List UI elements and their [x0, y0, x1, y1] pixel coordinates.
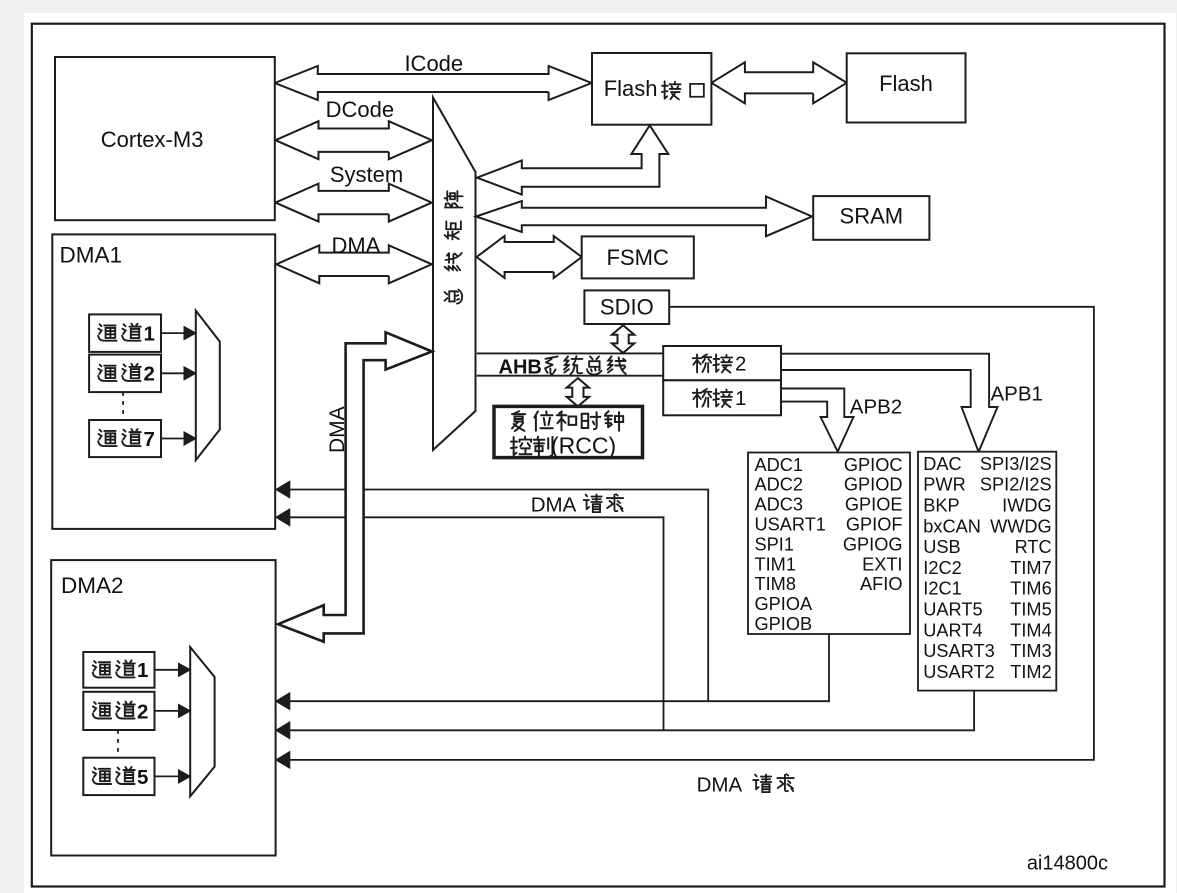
- svg-text:2: 2: [144, 363, 155, 386]
- svg-text:SDIO: SDIO: [600, 295, 654, 320]
- svg-text:Flash: Flash: [604, 76, 658, 101]
- svg-text:2: 2: [735, 353, 746, 376]
- svg-text:1: 1: [144, 323, 155, 346]
- svg-text:System: System: [330, 162, 403, 187]
- svg-text:GPIOB: GPIOB: [755, 614, 813, 634]
- svg-text:SRAM: SRAM: [840, 204, 904, 229]
- svg-text:EXTI: EXTI: [862, 554, 902, 574]
- svg-text:SPI1: SPI1: [755, 534, 794, 554]
- svg-text:APB2: APB2: [850, 396, 902, 419]
- svg-text:GPIOA: GPIOA: [755, 594, 813, 614]
- svg-text:TIM1: TIM1: [755, 554, 796, 574]
- svg-text:WWDG: WWDG: [990, 516, 1052, 536]
- svg-text:GPIOC: GPIOC: [844, 455, 903, 475]
- svg-text:TIM2: TIM2: [1010, 662, 1051, 682]
- svg-text:ADC1: ADC1: [755, 455, 804, 475]
- svg-text:2: 2: [137, 700, 148, 723]
- svg-text:TIM3: TIM3: [1010, 641, 1051, 661]
- svg-text:1: 1: [735, 387, 746, 410]
- svg-text:ADC3: ADC3: [755, 495, 804, 515]
- svg-text:BKP: BKP: [923, 496, 959, 516]
- svg-text:(RCC): (RCC): [551, 433, 616, 459]
- svg-text:I2C1: I2C1: [923, 579, 961, 599]
- svg-text:DAC: DAC: [923, 454, 961, 474]
- svg-text:1: 1: [137, 659, 148, 682]
- svg-text:bxCAN: bxCAN: [923, 516, 981, 536]
- svg-text:USB: USB: [923, 537, 960, 557]
- svg-text:GPIOE: GPIOE: [845, 495, 903, 515]
- svg-text:PWR: PWR: [923, 475, 965, 495]
- svg-text:DMA: DMA: [326, 406, 349, 453]
- svg-text:GPIOG: GPIOG: [843, 534, 903, 554]
- svg-text:USART1: USART1: [755, 515, 826, 535]
- svg-text:TIM5: TIM5: [1010, 600, 1051, 620]
- svg-text:DMA: DMA: [697, 774, 743, 797]
- svg-text:TIM6: TIM6: [1010, 579, 1051, 599]
- svg-text:DMA: DMA: [331, 233, 380, 258]
- svg-text:DCode: DCode: [326, 97, 394, 122]
- svg-text:FSMC: FSMC: [607, 245, 669, 270]
- svg-text:AFIO: AFIO: [860, 574, 902, 594]
- svg-text:UART5: UART5: [923, 600, 982, 620]
- svg-text:TIM8: TIM8: [755, 574, 796, 594]
- svg-text:7: 7: [144, 428, 155, 451]
- svg-text:ICode: ICode: [404, 51, 463, 76]
- svg-text:GPIOD: GPIOD: [844, 475, 903, 495]
- svg-text:DMA2: DMA2: [61, 573, 124, 598]
- svg-text:Cortex-M3: Cortex-M3: [101, 127, 204, 152]
- svg-text:Flash: Flash: [879, 71, 933, 96]
- svg-text:SPI2/I2S: SPI2/I2S: [980, 475, 1052, 495]
- svg-text:ADC2: ADC2: [755, 475, 804, 495]
- svg-text:DMA1: DMA1: [60, 242, 123, 267]
- svg-text:USART3: USART3: [923, 641, 994, 661]
- svg-text:SPI3/I2S: SPI3/I2S: [980, 454, 1052, 474]
- svg-text:UART4: UART4: [923, 620, 982, 640]
- svg-text:IWDG: IWDG: [1002, 496, 1052, 516]
- svg-text:USART2: USART2: [923, 662, 994, 682]
- svg-text:AHB: AHB: [499, 356, 542, 378]
- svg-text:I2C2: I2C2: [923, 558, 961, 578]
- svg-text:TIM7: TIM7: [1010, 558, 1051, 578]
- svg-text:TIM4: TIM4: [1010, 620, 1051, 640]
- svg-text:GPIOF: GPIOF: [846, 515, 903, 535]
- svg-text:ai14800c: ai14800c: [1027, 853, 1108, 875]
- svg-text:APB1: APB1: [990, 383, 1042, 406]
- svg-text:RTC: RTC: [1015, 537, 1052, 557]
- svg-text:5: 5: [137, 766, 148, 789]
- svg-text:DMA: DMA: [531, 494, 577, 517]
